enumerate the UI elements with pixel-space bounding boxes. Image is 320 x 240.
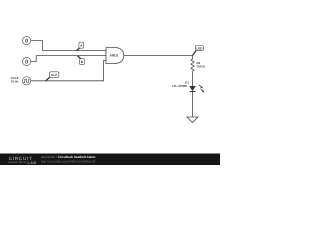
svg-text:CLK: CLK [51,73,58,77]
svg-text:LTL-307EE: LTL-307EE [172,85,187,89]
svg-text:0: 0 [25,38,28,44]
svg-text:http://circuitlab.com/c/4k5e2m: http://circuitlab.com/c/4k5e2m6d45zu95 [41,160,96,164]
svg-text:AND1: AND1 [110,54,119,58]
svg-text:LED: LED [196,47,202,51]
svg-text:LAB: LAB [28,160,37,165]
svg-text:A: A [80,44,83,48]
svg-text:R4: R4 [197,62,201,66]
svg-text:0: 0 [25,59,28,65]
svg-text:kaelric234 / CircuitLab Seatbe: kaelric234 / CircuitLab Seatbelt Alarm [41,155,96,159]
svg-text:10 Hz: 10 Hz [11,80,19,84]
svg-text:100 Ω: 100 Ω [197,65,205,69]
svg-text:CLK2: CLK2 [11,77,19,81]
svg-text:D1: D1 [185,81,189,85]
svg-text:B: B [81,61,84,65]
